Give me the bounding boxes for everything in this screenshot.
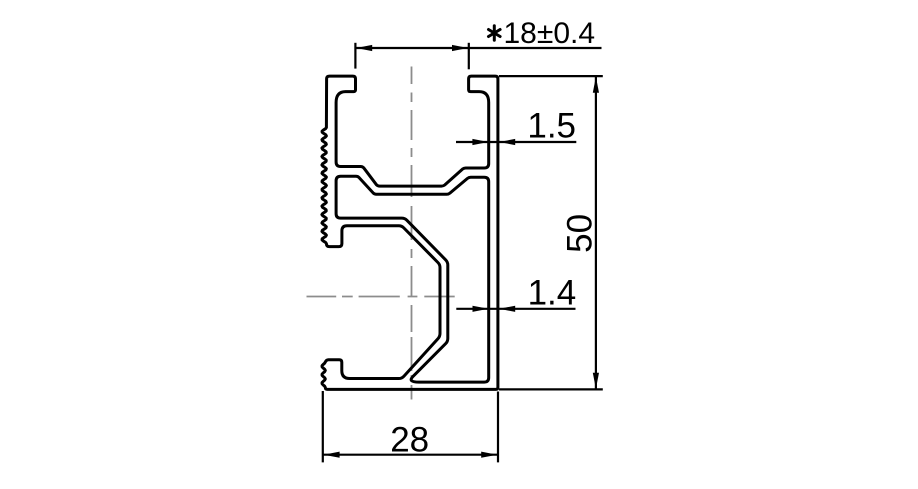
dim 28: left extension line <box>322 391 324 462</box>
dim 50: bottom arrow <box>593 373 599 389</box>
dim 28: left arrow <box>324 452 340 458</box>
dim 18: left extension line <box>354 43 356 69</box>
dim 18: left arrow <box>356 45 372 51</box>
dim 1.4: right arrow <box>499 306 515 312</box>
dim 50: top arrow <box>593 77 599 93</box>
dim 1.5: right arrow <box>499 139 515 145</box>
dim 1.5: left line+arrow <box>456 141 576 143</box>
vertical centerline <box>411 67 413 400</box>
dim 1.4: left line+arrow <box>456 308 575 310</box>
dim 28: dimension line <box>323 454 498 456</box>
dim 28: right extension line <box>497 392 499 463</box>
dim 50: top extension line <box>499 75 603 77</box>
horizontal centerline <box>307 296 455 298</box>
dim 18: dimension line <box>355 47 601 49</box>
dim 18: star mark <box>489 26 501 41</box>
svg-text:18±0.4: 18±0.4 <box>504 17 596 50</box>
extrusion profile inner chamber contour <box>336 176 489 382</box>
svg-text:1.5: 1.5 <box>527 107 576 146</box>
dim 50: dimension line <box>595 77 597 389</box>
dim 18: right extension line <box>468 43 470 70</box>
extrusion profile outer contour <box>322 76 498 389</box>
dim 18: right arrow <box>452 45 468 51</box>
dim 28: right arrow <box>481 452 497 458</box>
svg-text:28: 28 <box>390 420 429 459</box>
svg-text:50: 50 <box>561 214 600 253</box>
svg-text:1.4: 1.4 <box>528 273 577 312</box>
dim 50: bottom extension line <box>499 388 603 390</box>
